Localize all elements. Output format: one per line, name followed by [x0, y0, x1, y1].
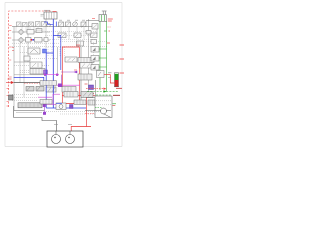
- valve bottom left cluster: [40, 100, 52, 105]
- dotted verticals center y47-56: [48, 47, 65, 56]
- drawing frame border: [5, 3, 122, 147]
- right assembly pump circle: [101, 108, 107, 114]
- wire vertical x20: [19, 43, 21, 82]
- red pipe to gauge: [104, 75, 115, 83]
- dotted pilot line y65.5: [14, 65, 50, 67]
- pump enclosure: [47, 131, 83, 147]
- red label right 1: [120, 44, 125, 46]
- valve bus right V9: [81, 22, 87, 28]
- valve row1 box A: [27, 30, 34, 35]
- top right component stem T: [102, 11, 107, 15]
- wire vertical x24: [23, 47, 25, 98]
- valve bottom row 2: [88, 100, 95, 105]
- supply line red segment: [6, 82, 11, 84]
- valve bottom mid with circle: [56, 103, 66, 110]
- dotted pilot line y70.3: [20, 69, 30, 71]
- green dashed inside assembly: [95, 106, 102, 108]
- valve box y87: [46, 87, 56, 92]
- wire main pressure bus y26.5: [12, 26, 97, 28]
- dotted pilot line y111.3: [46, 111, 108, 113]
- block B1 dark: [9, 95, 14, 100]
- label speck x41 y14: [41, 15, 44, 17]
- wire drops from bus valves: [61, 27, 84, 40]
- red dashed return y88.7: [86, 88, 104, 90]
- wire vertical x97: [96, 27, 98, 34]
- valve V20: [26, 87, 34, 92]
- purple vertical x61.3: [60, 75, 62, 86]
- pump P1 circle: [52, 135, 61, 144]
- pump P2 circle: [66, 135, 75, 144]
- red label near manifold: [53, 11, 57, 13]
- right valve V15: [91, 33, 98, 38]
- cylinder rod line 2: [16, 111, 42, 113]
- solenoid blue S1: [43, 49, 47, 53]
- red label top right a: [108, 18, 113, 20]
- valve V3: [29, 22, 34, 27]
- pump P1 dot: [54, 137, 55, 138]
- valve V5: [42, 22, 47, 27]
- blue stub near manifold: [55, 22, 57, 27]
- check valve diamond row2: [18, 37, 24, 43]
- red riser rectangle: [62, 47, 79, 104]
- wire vertical x14: [13, 27, 15, 111]
- red label right 2: [120, 58, 125, 60]
- purple diamonds on magenta line: [44, 74, 46, 76]
- green dashed return y91.5: [87, 91, 118, 93]
- dotted pilot line y46.6: [12, 46, 107, 48]
- blue pilot bottom horizontal: [46, 107, 86, 109]
- valve V19 wide: [30, 69, 45, 75]
- purple tick bottom: [43, 104, 46, 107]
- green stub y31: [104, 30, 107, 32]
- red arrowhead y88.7: [104, 88, 107, 90]
- blue wire y77.4: [14, 77, 44, 85]
- dotted pilot line y114.3: [60, 113, 95, 115]
- valve bus right V10: [92, 24, 98, 30]
- red dashed enclosure boundary: [9, 11, 52, 107]
- dark red label right 5: [113, 94, 120, 96]
- right assembly crossbar: [85, 110, 111, 112]
- red green ticks y84: [85, 83, 88, 85]
- valve box x62 y86.5: [62, 87, 76, 93]
- dotted pilot line y41.5 right: [60, 41, 107, 43]
- comb drops below bus: [16, 27, 44, 32]
- tiny box row2 right: [44, 38, 48, 42]
- valve box x78 y74: [78, 74, 92, 80]
- purple tick cluster y85: [58, 84, 62, 88]
- wire vertical x46: [45, 19, 47, 48]
- pump P1 supply wire: [14, 106, 57, 131]
- valve bus right V8 circle: [73, 22, 78, 27]
- valve V17: [24, 56, 30, 61]
- label specks above bus valves: [59, 19, 85, 21]
- red lower run: [62, 95, 91, 126]
- dotted y58.5: [30, 58, 57, 60]
- valve bus right V7: [66, 22, 71, 27]
- dotted pilot line y35.5: [45, 35, 96, 37]
- red pump feed: [71, 127, 86, 132]
- dotted pilot line y31.5: [45, 31, 96, 33]
- valve V1: [17, 22, 22, 27]
- wire y62 stub: [14, 61, 30, 63]
- blue short y103.3: [56, 102, 62, 104]
- red label right 3: [120, 72, 125, 74]
- wire vertical x57.5: [57, 47, 59, 76]
- solenoid purple S2: [44, 70, 48, 74]
- valve V2: [23, 23, 28, 27]
- valve center y57: [65, 57, 77, 62]
- red ticks y45.5: [76, 44, 80, 46]
- valve box x78 y57.5: [78, 58, 94, 63]
- gauge red segment: [115, 80, 119, 87]
- green supply line 2: [106, 21, 108, 92]
- red dot y31: [109, 30, 111, 32]
- valve row1 box B: [36, 29, 42, 33]
- blue pilot vertical main: [52, 19, 54, 108]
- blue pilot top hook: [44, 22, 53, 24]
- gray wire y74.8: [14, 74, 44, 76]
- purple blob x44 y112: [43, 112, 46, 115]
- wire row line y40: [12, 39, 50, 41]
- red label top right b: [108, 20, 112, 22]
- wire vertical x88.5: [88, 19, 90, 92]
- red text ticks x12: [12, 48, 14, 51]
- red dashed y83.2: [24, 82, 46, 84]
- dotted vertical x93.5: [93, 42, 95, 70]
- right valve row2: [91, 56, 99, 62]
- valve row2 box A: [26, 38, 32, 43]
- pump P2 stem: [69, 131, 71, 135]
- manifold block U1: [44, 12, 57, 19]
- red short y95: [62, 94, 95, 96]
- cylinder rod line: [14, 110, 44, 112]
- stub wire into component: [86, 20, 99, 22]
- red tick right assembly: [113, 105, 116, 107]
- wire vertical x28: [27, 27, 29, 63]
- wire vertical x95.5 right: [95, 80, 97, 96]
- magenta net bottom left: [38, 94, 62, 104]
- gauge outline: [114, 73, 118, 87]
- purple vertical x44.5: [44, 100, 46, 114]
- wire row line y32: [12, 31, 50, 33]
- green tick right assembly: [113, 103, 117, 105]
- dotted pilot line y39.5: [50, 39, 96, 41]
- gauge green segment: [115, 74, 119, 80]
- valve V16 with X: [28, 48, 40, 54]
- cylinder CYL1: [18, 103, 42, 108]
- right assembly lever: [104, 114, 111, 117]
- valve center y63: [80, 63, 92, 69]
- right valve row4: [97, 71, 105, 78]
- valve V4: [36, 22, 41, 27]
- red label above supply: [8, 78, 12, 80]
- dotted pilot line y72.3: [20, 71, 30, 73]
- valve bus right V6: [59, 22, 64, 27]
- valve V18: [30, 62, 42, 68]
- center valve V13: [58, 33, 66, 38]
- small box x86 y30.5: [86, 31, 91, 35]
- red tick marks along left border: [7, 26, 12, 107]
- check valve ball symbol: [47, 23, 51, 27]
- red tick y70: [74, 69, 77, 71]
- green stubs to valves: [99, 49, 107, 67]
- red tick y94: [90, 93, 94, 95]
- dotted pilot line y43.2: [12, 42, 60, 44]
- wire vertical x81: [80, 47, 82, 100]
- right valve row3: [91, 65, 99, 71]
- red dot marker row2: [31, 39, 33, 41]
- top right component green ticks: [102, 15, 105, 21]
- valve center y91: [64, 92, 78, 98]
- wire y97.5 stub: [86, 97, 95, 99]
- valve center y81: [40, 81, 57, 86]
- top right component box: [99, 15, 106, 22]
- red arrow on supply: [11, 81, 14, 84]
- magenta pilot y85.2: [46, 84, 80, 86]
- valve right y91: [81, 92, 93, 98]
- red tick y18.3: [92, 17, 95, 19]
- red tick y43: [107, 42, 110, 44]
- blue dot marker row2: [32, 39, 34, 41]
- purple pilot y72: [61, 71, 77, 73]
- red label right 4: [116, 87, 122, 89]
- purple block bottom center: [70, 105, 74, 109]
- supply line black: [14, 82, 50, 84]
- red dashes y27 right: [108, 26, 112, 28]
- right assembly enclosure: [95, 96, 112, 118]
- right valve row1: [91, 47, 99, 53]
- valve small x77 y41: [77, 41, 84, 46]
- purple component right: [89, 85, 94, 90]
- dotted pilot line y100.5: [12, 100, 38, 102]
- pump P2 dot: [68, 137, 69, 138]
- manifold label mark: [44, 9, 50, 11]
- specks above gauge pipe: [108, 73, 112, 78]
- pump P1 stem: [55, 131, 57, 135]
- green dashed return y95: [96, 94, 112, 96]
- blue pilot vertical left: [46, 53, 53, 108]
- dotted short y52.5: [20, 52, 28, 54]
- valve row2 box B: [35, 38, 43, 43]
- green supply line 1: [99, 21, 101, 90]
- valve V21: [36, 87, 44, 92]
- valve bottom row 1: [74, 100, 86, 105]
- dotted pilot line y94.3: [12, 93, 40, 95]
- green arrowhead y91.5: [104, 90, 107, 92]
- magenta pilot y74.6: [44, 74, 59, 76]
- page background: [0, 0, 130, 150]
- blue pilot vertical x60.8: [53, 36, 61, 71]
- center valve V14: [74, 33, 81, 38]
- check valve diamond row1: [18, 29, 24, 35]
- red dashed y113.5: [85, 113, 95, 115]
- right assembly dashes: [96, 101, 111, 105]
- manifold block U1 ticks: [47, 12, 55, 19]
- pump label specks: [54, 124, 72, 126]
- magenta short y94.2: [53, 93, 60, 95]
- dotted pilot line y97.3: [12, 96, 38, 98]
- right small symbol y41: [91, 40, 97, 44]
